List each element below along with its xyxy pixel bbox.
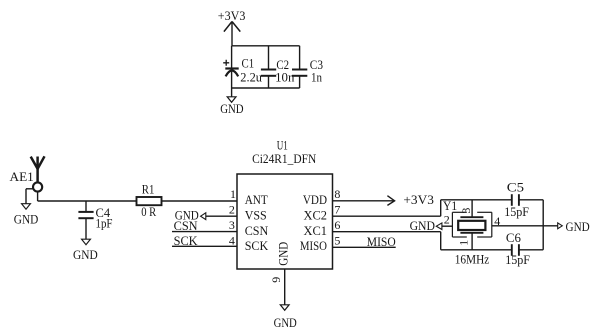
wire SCK stub	[172, 245, 237, 247]
svg-text:3: 3	[229, 218, 235, 232]
wire R1 to U1 pin 1	[162, 200, 238, 202]
svg-text:MISO: MISO	[367, 234, 396, 249]
svg-text:15pF: 15pF	[505, 252, 530, 267]
power +3V3 symbol (top)	[224, 22, 240, 46]
ground (antenna)	[22, 189, 33, 209]
svg-text:15pF: 15pF	[504, 204, 529, 219]
wire U1 pin 9 to ground	[284, 269, 286, 305]
svg-text:C1: C1	[242, 56, 255, 71]
ground flag (right)	[558, 223, 563, 229]
svg-text:8: 8	[334, 187, 340, 201]
svg-text:16MHz: 16MHz	[455, 252, 490, 267]
svg-text:C5: C5	[507, 179, 524, 194]
crystal Y1 element	[458, 200, 485, 250]
svg-text:AE1: AE1	[10, 169, 34, 184]
svg-text:2.2u: 2.2u	[240, 70, 262, 85]
svg-text:9: 9	[269, 277, 283, 283]
svg-text:1: 1	[230, 187, 236, 201]
svg-text:XC2: XC2	[304, 207, 328, 222]
svg-text:4: 4	[229, 233, 235, 247]
crystal Y1 case box	[452, 212, 491, 237]
ground (top capacitor bank)	[227, 88, 236, 102]
svg-text:GND: GND	[276, 242, 291, 266]
wire top rail	[232, 45, 300, 47]
wire crystal pin 4 to GND flag	[492, 225, 558, 227]
svg-text:2: 2	[229, 203, 235, 217]
wire pin 7 XC2 to crystal top	[333, 200, 512, 216]
svg-text:2: 2	[444, 212, 450, 226]
svg-text:+3V3: +3V3	[403, 192, 434, 207]
svg-text:0 R: 0 R	[141, 204, 156, 219]
svg-text:GND: GND	[14, 211, 39, 226]
ground flag (U1 pin 2 VSS)	[201, 213, 237, 220]
svg-text:C6: C6	[506, 230, 521, 245]
svg-text:Ci24R1_DFN: Ci24R1_DFN	[252, 151, 317, 166]
svg-text:+3V3: +3V3	[218, 8, 246, 23]
ground flag (crystal pin 2)	[436, 223, 452, 230]
svg-text:VSS: VSS	[245, 207, 267, 222]
capacitor C2	[261, 46, 276, 88]
capacitor C4	[78, 201, 93, 239]
svg-text:GND: GND	[73, 247, 98, 262]
svg-text:1: 1	[457, 240, 471, 246]
antenna AE1	[31, 156, 45, 191]
capacitor C3	[292, 46, 307, 88]
IC U1 box	[237, 174, 333, 269]
svg-text:SCK: SCK	[245, 238, 269, 253]
svg-text:GND: GND	[566, 219, 590, 234]
svg-text:CSN: CSN	[245, 223, 269, 238]
svg-text:1pF: 1pF	[96, 216, 113, 231]
svg-text:ANT: ANT	[245, 192, 268, 207]
svg-text:R1: R1	[142, 182, 155, 197]
svg-text:GND: GND	[220, 101, 243, 116]
wire right vertical (C5/C6 to GND net)	[542, 200, 544, 250]
svg-text:VDD: VDD	[303, 192, 327, 207]
wire antenna to R1	[38, 192, 137, 201]
capacitor C5	[512, 194, 543, 206]
svg-text:XC1: XC1	[304, 223, 328, 238]
wire MISO stub (pin 5)	[333, 246, 396, 248]
capacitor C1	[223, 46, 239, 88]
capacitor C6	[512, 244, 543, 256]
svg-text:GND: GND	[410, 218, 435, 233]
wire CSN stub	[172, 231, 237, 233]
wire bottom rail	[232, 87, 300, 89]
ground (C4)	[82, 239, 91, 245]
wire pin 6 XC1 to crystal bottom	[333, 232, 512, 250]
svg-text:CSN: CSN	[174, 218, 199, 233]
svg-text:7: 7	[334, 203, 340, 217]
svg-text:6: 6	[334, 218, 340, 232]
svg-text:10n: 10n	[275, 70, 295, 85]
svg-text:Y1: Y1	[443, 198, 457, 213]
svg-text:GND: GND	[274, 315, 297, 330]
ground (U1 pin 9)	[280, 305, 289, 311]
svg-text:SCK: SCK	[174, 233, 199, 248]
svg-text:MISO: MISO	[300, 238, 327, 253]
resistor R1	[137, 197, 162, 205]
svg-text:3: 3	[459, 208, 473, 214]
svg-text:5: 5	[334, 233, 340, 247]
svg-text:1n: 1n	[311, 69, 322, 84]
power flag +3V3 (pin 8 VDD)	[333, 196, 395, 206]
